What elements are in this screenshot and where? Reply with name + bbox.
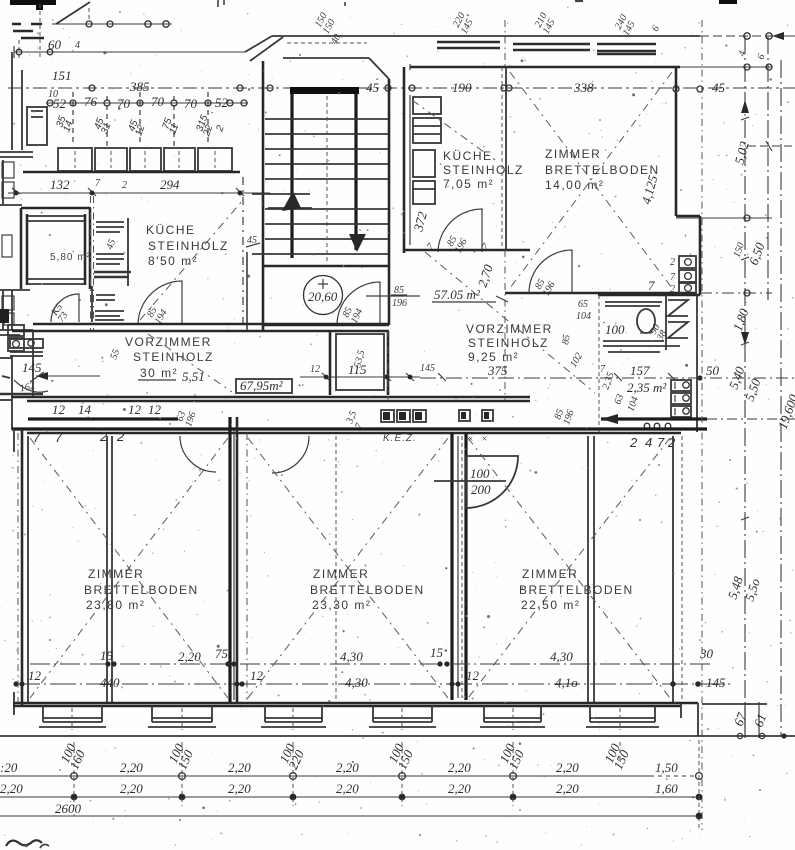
svg-text:23,30 m²: 23,30 m² [312,598,371,612]
fixture: kitchen counter bars Kueche1 [92,218,131,322]
stair: treads [252,119,388,266]
bath: right wall x=697 [696,295,698,432]
diagonal dashes vorzimmer2 [425,252,595,393]
area note 57,05 m2 boxed [432,287,508,302]
bath: left wall dashed x=599 [598,295,600,432]
rotated dims right of bottom rooms [725,574,746,601]
svg-text:ZIMMER: ZIMMER [545,147,601,161]
door arc: from 5,80 room down-right [48,294,79,325]
svg-text:VORZIMMER: VORZIMMER [466,322,553,336]
svg-text:76: 76 [84,94,98,109]
stair: small tick left mid [246,235,260,247]
svg-text:2,20: 2,20 [556,760,579,775]
wire: dashed axis line top-left y=25 [12,4,172,60]
svg-text:7: 7 [648,278,655,293]
svg-text:15: 15 [100,648,114,663]
entrance: box with circle top [10,339,43,356]
room2: door arc top-left [272,436,309,473]
landing: level circle +20,60 [304,276,343,315]
entrance: dim arrow y=376 [30,372,100,382]
svg-text:7,05 m²: 7,05 m² [443,177,494,191]
room3 label [519,567,634,612]
axis: dashed vertical x=388 [387,330,389,400]
svg-text:294: 294 [160,177,180,192]
stair: down arrow [349,234,366,252]
facade line y=736 [0,735,795,737]
left wall stub at entrance [0,376,43,394]
room1: diagonal X dashed [30,438,228,698]
svg-text:57.05 m²: 57.05 m² [434,287,481,302]
dim rotated 372 in Kueche2 [410,210,430,234]
flue: chimney boxes with circles x=680 [670,256,696,295]
svg-text:2: 2 [116,429,125,444]
svg-text:12: 12 [310,364,320,375]
svg-text:12: 12 [128,402,142,417]
room1 label [84,567,199,612]
svg-text:2,20: 2,20 [556,781,579,796]
svg-text:375: 375 [487,363,508,378]
room3: diagonal X dashed [468,438,670,698]
svg-text:67,95m²: 67,95m² [240,378,284,393]
svg-text:BRETTELBODEN: BRETTELBODEN [545,163,660,177]
svg-text:22,50 m²: 22,50 m² [521,598,580,612]
svg-text:5,80 m²: 5,80 m² [50,252,91,263]
dim row y=684 (lower) [13,668,730,690]
svg-text:ZIMMER: ZIMMER [313,567,369,581]
svg-text:2,20: 2,20 [448,781,471,796]
wall: Kueche1 right wall / stair-bay left [243,177,247,330]
svg-text:338: 338 [573,80,594,95]
window: bottom window 4 [369,706,436,730]
svg-text:104: 104 [576,311,591,322]
svg-text:75: 75 [215,646,229,661]
wall: Kueche2 left wall double [404,67,410,253]
axis: long dash-dot x=505 upper [504,20,506,67]
wall: top wall of Kueche2/Zimmer y=67 [410,64,772,70]
svg-text:23,80 m²: 23,80 m² [86,598,145,612]
window: top-right double-bar window segments y 42-54 [437,42,656,54]
svg-text:196: 196 [392,298,407,309]
svg-text:2: 2 [667,435,676,450]
rotated dims in vorzimmer2 [475,262,496,289]
svg-text:60: 60 [48,37,62,52]
svg-text::20: :20 [0,760,18,775]
stair: walking line dashed center [326,96,328,264]
door arc: landing to vorzimmer right [337,282,380,325]
bath: top wall y=295 [598,294,700,297]
svg-text:4,30: 4,30 [345,675,368,690]
fixture: small cell boxes left edge [2,162,14,325]
window sill labels rotated [56,741,89,772]
dim chain y=88 across full width [8,68,795,100]
svg-text:2: 2 [670,257,675,268]
svg-text:9,25 m²: 9,25 m² [468,350,519,364]
svg-text:70: 70 [151,94,165,109]
tick marks top edge [218,0,583,7]
mid strip: tick row y=418 heavy bar [28,402,178,419]
svg-text:14,00 m²: 14,00 m² [545,178,604,192]
svg-text:8'50 m²: 8'50 m² [148,254,198,268]
room3: pier lines x=588/594 [588,436,594,703]
svg-text:145: 145 [706,675,726,690]
wall: bottom wall of rooms y=703/706 [13,703,698,706]
fixture: small circles row under wall [644,423,671,429]
right column: vertical dim line x=745 [741,36,749,736]
svg-text:KÜCHE: KÜCHE [443,149,493,163]
window: box on left wall upper [27,107,47,145]
svg-text:4: 4 [75,40,80,51]
svg-text:1,60: 1,60 [655,781,678,796]
svg-text:45: 45 [366,80,380,95]
right mid: wall jog near y=703 [681,703,698,736]
svg-text:BRETTELBODEN: BRETTELBODEN [310,583,425,597]
svg-text:2,20: 2,20 [120,781,143,796]
wall: stair bay left wall x=263 [262,61,265,330]
svg-text:BRETTELBODEN: BRETTELBODEN [519,583,634,597]
vertical ticks under dim row [73,92,208,146]
dim: 375 line y=378 [420,363,598,381]
svg-text:×: × [481,434,488,445]
label 150/150 rotated near stair bay [312,11,339,36]
svg-text:385: 385 [129,79,150,94]
svg-text:STEINHOLZ: STEINHOLZ [468,336,549,350]
wall: stair bay right wall x=389 [388,79,391,325]
window: bottom window 2 [148,706,216,730]
small room: center box walls [330,331,388,395]
bath: wc ellipse [637,309,655,333]
dim total 2600 y=816 [0,801,702,819]
dim row bottom 1 y=776 [0,760,702,779]
svg-text:52: 52 [215,95,229,110]
window: bottom window 3 [261,706,326,730]
vorzimmer1: top wall heavy y=324/330 [12,324,389,331]
fixture: Kueche2 counter boxes [413,97,441,204]
wall: below windows y=172 [23,171,240,174]
wall: Kueche2/Zimmer separating wall x=506 [502,67,506,250]
svg-text:4,1o: 4,1o [555,675,578,690]
wall: right wall x=700 down to bath [699,216,702,295]
svg-text:7: 7 [55,430,63,445]
svg-text:STEINHOLZ: STEINHOLZ [133,350,214,364]
door arc: Kueche1 bottom door [138,281,182,326]
svg-text:132: 132 [50,177,70,192]
axis: long dashed vertical x=505 below [504,250,506,400]
door arc: room1 top-right [180,436,216,472]
diagonal dashed vorzimmer1 [148,334,232,392]
svg-text:85: 85 [394,285,404,296]
svg-text:1,50: 1,50 [655,760,678,775]
svg-text:KÜCHE: KÜCHE [146,223,196,237]
svg-text:4,30: 4,30 [550,649,573,664]
rotated small dims left of flue [600,371,616,391]
svg-text:115: 115 [348,362,367,377]
svg-text:157: 157 [630,363,650,378]
svg-text:7: 7 [657,435,665,450]
wall: jog at y=216 [676,215,700,218]
room2: dashed axis x=336 [335,436,337,700]
dim row 52/70/70/70/70/52 y=103 [46,94,248,111]
svg-text:4: 4 [645,435,652,450]
axis: long dash-dot x=702 [701,20,703,830]
dim row y=664 (upper) [30,645,714,667]
svg-text:ZIMMER: ZIMMER [88,567,144,581]
dim tick right edge y=146 [748,141,795,151]
svg-text:2,20: 2,20 [448,760,471,775]
svg-text:2,20: 2,20 [120,760,143,775]
window label 220/145 [450,11,477,36]
diagonal dashed in Kueche2 [412,100,495,160]
window: left-wing window boxes row y 148-171 [58,148,232,171]
wall: diagonal stub top-left [56,2,90,24]
door arc: Zimmer bottom-left door [529,250,572,298]
room1: left wall double x=22/27 [14,428,28,715]
svg-text:STEINHOLZ: STEINHOLZ [443,163,524,177]
wall: small horizontal dividers left edge [0,152,33,400]
right bottom: ticks 67/61 [700,702,795,739]
wall: Zimmer right wall x=676 [675,68,678,216]
svg-text:440: 440 [100,675,120,690]
handwriting 2 4 7 2 under bath [629,435,676,450]
main heavy wall y=428/432 full width [12,429,707,433]
window label 240/145 [612,13,639,38]
svg-text:12: 12 [148,402,162,417]
flue: stacked boxes with circles lower x=672 [671,380,691,417]
room2: diagonal X dashed [248,438,448,698]
vorzimmer1: bottom wall heavy y=397/401 [12,397,530,401]
vorzimmer2: label [466,322,553,364]
svg-text:2600: 2600 [55,801,82,816]
svg-text:45: 45 [247,235,257,246]
wall: Kueche1 left dashed wall x=92 [91,196,94,330]
svg-text:STEINHOLZ: STEINHOLZ [148,239,229,253]
dim row bottom 2 y=797 [0,781,702,800]
stair: half landing line under arrow [268,207,312,209]
svg-text:K.E.Z.: K.E.Z. [383,433,417,444]
wall: heavy mark top-right [719,0,737,4]
svg-text:45: 45 [712,80,726,95]
room label KUECHE 2 [443,149,524,191]
dim chain top y=36 with left arrow at right edge [272,32,795,40]
landing: bottom wall of stair flight [263,265,388,268]
wall: heavy stub left edge [0,309,9,323]
room2 label [310,567,425,612]
dim: 115 y=377 [300,362,420,381]
right column: vertical line x=781 [780,60,782,736]
svg-text:20,60: 20,60 [308,289,338,304]
svg-text:52: 52 [53,96,67,111]
svg-text:12: 12 [466,668,480,683]
svg-text:100: 100 [470,466,490,481]
svg-text:2,20: 2,20 [228,760,251,775]
entrance: door arc flat [14,380,48,395]
bath: inner vertical x=666 [665,295,667,350]
diagonal dashed in Kueche1 [140,200,243,320]
right column: vertical dim line x=768 [767,36,769,300]
handwriting small marks below wall [33,429,125,445]
right column: rotated dim 502 upper [731,139,752,165]
window label 210/145 [532,11,559,36]
window: bottom window 6 [586,706,659,730]
vorzimmer1: label [125,335,214,380]
dim leader 85/196 near landing [366,285,420,309]
room3: right wall x=673 [673,436,682,703]
svg-text:4,30: 4,30 [340,649,363,664]
wall: vorzimmer1 left wall x=33 [32,331,34,397]
svg-text:2,20: 2,20 [178,649,201,664]
wall: left outer wall column [3,52,22,430]
svg-text:2,20: 2,20 [0,781,23,796]
svg-text:BRETTELBODEN: BRETTELBODEN [84,583,199,597]
wall: chamfer to stair bay top [245,36,272,52]
room label ZIMMER top-right [545,147,660,192]
svg-text:145: 145 [420,363,435,374]
svg-text:VORZIMMER: VORZIMMER [125,335,212,349]
dim line 132/294 y=193 [8,177,270,196]
wall: heavy bath bottom wall y=419 [601,414,795,424]
window: bottom window 1 [39,706,106,730]
dim line 60 at y=52 [14,37,245,58]
wall: room1/room2 separating wall x=233/240 [230,417,247,703]
stair: bay outline chamfers [250,37,389,79]
stair: right rail [354,94,357,250]
dim extension y=293 right [700,290,772,296]
svg-text:2,20: 2,20 [228,781,251,796]
wall: room2/room3 separating wall x=451/463 dark [452,433,466,700]
small mullion figures between y 112-146 (left wing) [54,113,227,138]
svg-text:12: 12 [28,668,42,683]
stair: up arrow [282,191,301,211]
svg-text:2: 2 [629,435,638,450]
K.E.Z. filled squares [381,410,426,444]
svg-text:151: 151 [52,68,72,83]
stair: left rail [290,94,293,258]
svg-text:100: 100 [605,322,625,337]
dim circles at y=218 right [676,215,772,221]
right column rotated dims [730,306,752,333]
svg-text:14: 14 [78,402,92,417]
svg-text:50: 50 [706,363,720,378]
svg-text:2,20: 2,20 [336,760,359,775]
room1: pier lines x=107/112 [107,436,112,703]
wall: heavy blob top-left corner [10,0,56,10]
landing: bottom wall y=325 [263,324,389,327]
window: bottom window 5 [480,706,545,730]
door 100/200: quarter arc at room3 top-left [434,456,518,508]
svg-text:190: 190 [452,80,472,95]
svg-text:145: 145 [22,360,42,375]
bath: fixtures shelf lines [603,302,680,352]
svg-text:200: 200 [471,482,491,497]
svg-text:70: 70 [184,96,198,111]
wall: Zimmer bottom wall y=293 [505,292,695,295]
handwriting bottom-left corner [6,840,49,848]
svg-text:65: 65 [578,299,588,310]
diagonal X in Zimmer top-right [510,72,672,288]
fixture: box with circle left (flue) [8,325,24,351]
wall: Kueche2 bottom wall [404,249,530,252]
door arc: Kueche2 bottom [425,209,492,255]
IZ IZ squares [459,410,493,445]
svg-text:12: 12 [52,402,66,417]
svg-text:30 m²: 30 m² [140,366,178,380]
svg-text:2,35 m²: 2,35 m² [627,380,667,395]
room: 5,80 m2 chamber walls [21,208,91,289]
area note 67,95 m2 boxed [236,378,292,393]
vertical dashed connectors bottom dims [74,740,699,830]
svg-text:2: 2 [122,180,127,191]
dim: 157 line y=378 [600,363,795,381]
svg-text:ZIMMER: ZIMMER [522,567,578,581]
dim rotated 4,125 in Zimmer [638,173,660,206]
svg-text:2: 2 [670,284,675,295]
svg-text:15: 15 [430,645,444,660]
stair: heavy top bar [290,87,359,94]
svg-text:12: 12 [250,668,264,683]
room label KUECHE 1 [146,223,229,268]
rotated 3,5/7 pair mid strip [344,410,369,431]
svg-text:30: 30 [699,646,714,661]
bath: N zigzag symbols [668,300,688,338]
small room rotated dim 53,5 [352,349,367,369]
